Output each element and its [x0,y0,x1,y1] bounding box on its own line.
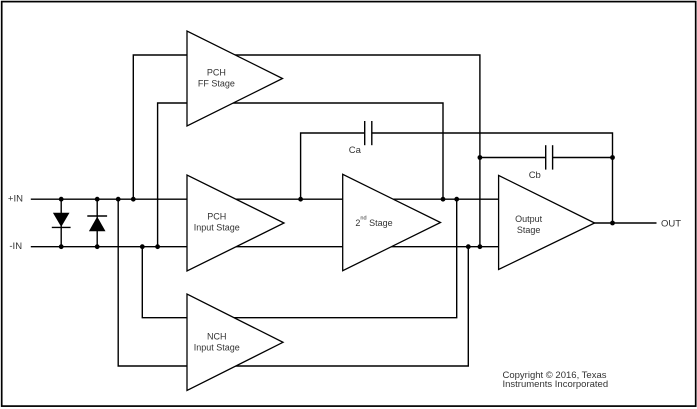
wire diode D1 vertical [60,199,62,247]
diode D2 cathode bar [87,215,107,217]
wire -IN rail [31,246,499,248]
svg-text:FF Stage: FF Stage [198,79,235,89]
op-amp NCH Input Stage triangle [187,294,283,391]
capacitor Cb plates [545,145,547,169]
wire NCH bottom loop: +IN down to NCH stage, across, up to lower rail [118,199,468,366]
op-amp PCH Input Stage triangle [187,175,284,271]
svg-text:Ca: Ca [349,145,362,156]
svg-text:PCH: PCH [207,67,226,77]
wire +IN rail [31,198,499,200]
diode D2 arrow (pointing up) [89,217,106,232]
svg-text:-IN: -IN [9,241,22,252]
svg-text:+IN: +IN [8,194,23,205]
wire diode D2 vertical [96,199,98,247]
op-amp PCH FF Stage triangle [187,31,283,126]
svg-text:Cb: Cb [529,170,541,181]
svg-text:PCH: PCH [207,211,226,221]
diode D1 arrow (pointing down) [53,213,70,227]
svg-text:Input Stage: Input Stage [194,223,240,233]
diode D1 cathode bar [52,226,71,228]
svg-text:Instruments Incorporated: Instruments Incorporated [503,379,609,390]
wire FF bottom input/output loop: -IN up to FF stage, across, down to upper rail [158,103,443,247]
op-amp 2nd Stage triangle [343,174,441,270]
wire Cb branch [480,157,546,159]
svg-text:Output: Output [515,214,543,224]
svg-text:Input Stage: Input Stage [194,343,240,353]
wire NCH top loop: -IN down to NCH stage, across, up to upper rail [142,199,456,318]
svg-text:Stage: Stage [517,225,541,235]
capacitor Ca plates [364,121,366,145]
svg-text:NCH: NCH [207,331,227,341]
op-amp Output Stage triangle [499,175,595,269]
junction dots [59,155,615,249]
wire FF top input/output loop: +IN up to FF stage, across, down to Cb left and lower rail [133,55,480,247]
wire output line [595,222,657,224]
svg-text:OUT: OUT [661,218,681,229]
wire Ca branch: upper rail up to Ca, across to output node [301,133,365,199]
